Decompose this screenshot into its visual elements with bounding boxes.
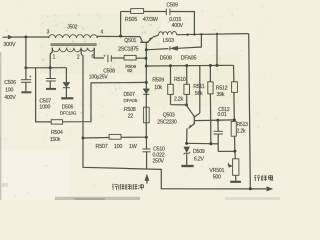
wire node to C507/D506 xyxy=(26,67,67,69)
svg-text:400V: 400V xyxy=(172,23,184,29)
label R511 56k xyxy=(193,84,205,97)
node C512 top xyxy=(216,119,219,122)
svg-text:R508: R508 xyxy=(124,107,136,113)
inductor L503 xyxy=(158,31,176,35)
bottom loop wire xyxy=(83,138,266,189)
svg-text:DFA05: DFA05 xyxy=(181,55,197,61)
wire C512 bottom to pot lead xyxy=(211,144,235,152)
wire pin1 down to node xyxy=(50,48,52,68)
label C509 xyxy=(166,2,178,8)
label 2SC2230 xyxy=(157,119,177,125)
label C507 1000 xyxy=(39,99,51,111)
svg-text:56k: 56k xyxy=(195,91,203,97)
wire R504 left up xyxy=(36,68,52,122)
label line supply output (Chinese) xyxy=(254,175,273,181)
node Q503 base xyxy=(185,94,188,106)
svg-text:100: 100 xyxy=(5,87,13,93)
svg-text:1W: 1W xyxy=(129,144,138,150)
label Q503 xyxy=(163,113,175,119)
pin 3 label xyxy=(47,29,50,35)
label D509 6.2V xyxy=(193,149,205,162)
svg-text:6.2V: 6.2V xyxy=(194,156,205,162)
node C510 top xyxy=(145,136,148,139)
svg-text:R509: R509 xyxy=(152,78,164,84)
wire 300V down to C506 xyxy=(25,37,27,79)
wire pin2 down to R507 rail xyxy=(81,48,83,138)
capacitor C506 xyxy=(21,74,32,92)
label D506 DFC10G xyxy=(60,105,77,116)
svg-text:R507: R507 xyxy=(96,144,108,150)
wire R509 bottom to base node xyxy=(171,94,187,105)
svg-text:R505: R505 xyxy=(125,17,137,23)
label C506 100 400V xyxy=(4,80,16,101)
svg-text:R510: R510 xyxy=(174,77,186,83)
label R512 39k xyxy=(216,85,228,97)
svg-text:D509: D509 xyxy=(193,149,205,155)
svg-text:DFC10G: DFC10G xyxy=(60,111,77,116)
svg-text:2: 2 xyxy=(77,54,80,60)
node R505 branch xyxy=(119,35,122,38)
resistor R504 xyxy=(51,120,62,124)
divider resistor leads from top wire xyxy=(169,64,172,84)
node divider wire left xyxy=(145,65,148,68)
ground VR501 xyxy=(230,181,241,183)
svg-text:2.2k: 2.2k xyxy=(174,97,184,103)
node divider feed branch xyxy=(216,33,218,35)
rail L503 to top-right corner xyxy=(177,34,249,35)
svg-text:R512: R512 xyxy=(216,85,228,91)
svg-text:10k: 10k xyxy=(154,85,162,91)
svg-text:L503: L503 xyxy=(163,38,174,44)
transistor Q501 xyxy=(140,37,153,50)
resistor R509 xyxy=(168,84,174,94)
ground D509 xyxy=(181,165,193,167)
svg-text:Q503: Q503 xyxy=(163,113,175,119)
label J502 xyxy=(67,24,77,30)
label VR501 500 xyxy=(209,168,224,180)
label C510 0.022 250V xyxy=(153,147,166,165)
svg-text:39k: 39k xyxy=(217,92,225,98)
node R510 top xyxy=(185,64,188,84)
pin 4 label xyxy=(100,29,103,35)
capacitor C508 electrolytic xyxy=(103,53,124,62)
diode D508 on wire xyxy=(146,34,201,50)
svg-text:D507: D507 xyxy=(124,92,136,98)
node D508 wire xyxy=(145,48,148,51)
potentiometer VR501 xyxy=(228,159,239,181)
wire R513 to VR501 xyxy=(233,136,236,159)
node R506 wire xyxy=(144,57,147,60)
pin 1 label xyxy=(53,54,56,60)
svg-text:2SC2230: 2SC2230 xyxy=(157,119,177,125)
wire R512 bottom xyxy=(233,92,235,120)
svg-text:100: 100 xyxy=(114,144,123,150)
wire R505 to C509 xyxy=(144,11,167,13)
output arrow xyxy=(267,187,273,191)
svg-text:DFA05: DFA05 xyxy=(124,98,138,104)
svg-text:250V: 250V xyxy=(153,158,165,164)
resistor R513 xyxy=(231,121,236,136)
pin 2 label xyxy=(77,54,80,60)
svg-text:VR501: VR501 xyxy=(209,168,224,174)
svg-text:J502: J502 xyxy=(67,24,77,30)
transformer J502 secondary winding pins 2-6 xyxy=(81,48,94,51)
resistor R510 xyxy=(184,84,190,94)
capacitor C509 xyxy=(166,9,170,16)
svg-text:150k: 150k xyxy=(50,137,61,143)
node left loop xyxy=(145,81,148,84)
svg-text:500: 500 xyxy=(213,174,221,180)
node C509 branch xyxy=(193,33,195,35)
emitter wire xyxy=(185,142,212,145)
node C507 xyxy=(49,66,52,69)
label retrace pulse (Chinese) xyxy=(112,184,143,190)
diode D507 xyxy=(143,89,149,95)
label 2.2k xyxy=(174,97,184,103)
label R510 xyxy=(174,77,186,83)
label C508 100u25V xyxy=(89,69,115,81)
svg-text:47/3W: 47/3W xyxy=(143,17,159,23)
svg-text:1: 1 xyxy=(53,54,56,60)
wire R505 branch up xyxy=(121,12,131,37)
wire R507 rail xyxy=(83,136,146,139)
B+ line right side down xyxy=(249,34,251,189)
node R507 rail left xyxy=(82,137,85,140)
svg-text:3: 3 xyxy=(47,29,50,35)
label 0.015 400V xyxy=(169,17,183,29)
label C512 0.01 xyxy=(218,107,230,118)
svg-text:0.01: 0.01 xyxy=(218,112,227,118)
label L503 xyxy=(163,38,174,44)
label R504 150k xyxy=(50,130,63,143)
resistor R506 xyxy=(124,55,146,60)
label R513 2.2k xyxy=(237,122,249,134)
svg-text:C509: C509 xyxy=(166,2,178,8)
ground C506 xyxy=(21,91,31,93)
node B+ output xyxy=(249,187,252,190)
label D508 DFA05 xyxy=(160,55,197,61)
resistor R507 xyxy=(109,134,121,139)
svg-text:2.2k: 2.2k xyxy=(237,128,246,134)
retrace pulse input arrow xyxy=(145,174,149,183)
label 2SC1875 xyxy=(118,46,139,52)
svg-text:Q501: Q501 xyxy=(124,38,136,44)
node divider feed top xyxy=(216,34,219,67)
svg-text:82: 82 xyxy=(127,68,133,74)
ground C507 xyxy=(46,88,56,90)
svg-text:4: 4 xyxy=(100,29,103,35)
300V input arrow xyxy=(3,35,27,39)
label 300V xyxy=(3,42,16,48)
capacitor C510 xyxy=(143,137,151,169)
wire C509 to rail xyxy=(170,12,195,35)
svg-text:R511: R511 xyxy=(193,84,205,90)
label R507 100 1W xyxy=(96,144,138,150)
transformer J502 core xyxy=(51,44,96,46)
divider top wire xyxy=(146,64,233,67)
wire top to R512 xyxy=(233,65,235,82)
capacitor C507 xyxy=(46,68,56,88)
transistor Q503 xyxy=(187,66,200,144)
svg-text:C506: C506 xyxy=(4,80,16,86)
main rail transformer pin4 to Q501 xyxy=(97,35,140,37)
label R505 47/3W xyxy=(125,17,159,23)
transformer J502 secondary winding pins 1-2 xyxy=(52,48,81,52)
svg-text:D508: D508 xyxy=(160,55,172,61)
resistor R505 xyxy=(131,9,144,14)
svg-text:R504: R504 xyxy=(51,130,63,136)
wire Q501 base vertical chain xyxy=(145,50,147,138)
label Q501 xyxy=(124,38,136,44)
wire left feedback loop xyxy=(63,82,147,121)
collector node wire xyxy=(195,119,235,122)
ground D506 xyxy=(61,97,73,99)
rail Q501 emitter to L503 xyxy=(153,35,158,37)
node at 300V rail xyxy=(24,36,27,39)
svg-text:2SC1875: 2SC1875 xyxy=(118,46,139,52)
svg-text:300V: 300V xyxy=(3,42,16,48)
node D508 branch xyxy=(200,33,202,35)
diode D506 xyxy=(63,68,70,98)
capacitor C512 xyxy=(214,120,223,151)
resistor R508 xyxy=(144,107,150,123)
node L503 right xyxy=(186,33,188,35)
label R509 10k xyxy=(152,78,164,91)
wire R511 bottom down to emitter wire xyxy=(209,94,212,144)
resistor R512 xyxy=(232,82,238,93)
label R506 82 xyxy=(125,64,136,74)
wire 300V to transformer pin 3 xyxy=(26,36,49,38)
label R508 22 xyxy=(124,107,136,119)
node R512/R513 junction xyxy=(233,118,236,121)
svg-text:R513: R513 xyxy=(237,122,249,128)
svg-text:1000: 1000 xyxy=(39,105,50,111)
svg-text:400V: 400V xyxy=(4,95,16,101)
resistor R511 xyxy=(208,82,213,94)
svg-text:100μ25V: 100μ25V xyxy=(89,75,109,81)
wire pin6 to C508 xyxy=(94,48,104,58)
pin 6 label xyxy=(91,54,94,60)
label D507 DFA05 xyxy=(124,92,138,104)
zener D509 xyxy=(184,147,191,165)
transformer J502 primary winding pins 3-4 xyxy=(49,35,98,38)
node R511 top xyxy=(209,64,212,82)
svg-text:22: 22 xyxy=(128,114,134,120)
node 300V cap branch xyxy=(24,66,27,69)
